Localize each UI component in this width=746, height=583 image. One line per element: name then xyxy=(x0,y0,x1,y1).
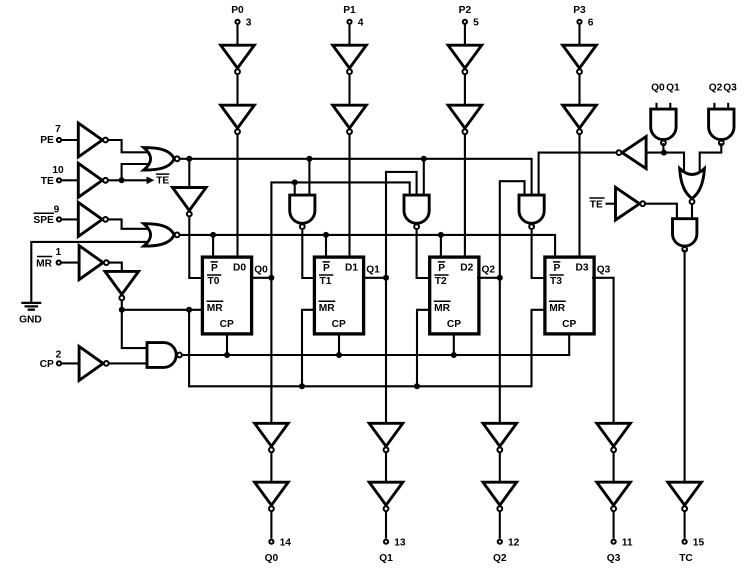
svg-text:SPE: SPE xyxy=(33,215,54,226)
junction P bus to FF2 xyxy=(438,232,444,238)
AND gate T1 (Q0*E) xyxy=(290,195,315,229)
svg-text:P: P xyxy=(323,263,330,274)
wire G4 output to node F xyxy=(662,143,664,153)
wire Q3 to output pin xyxy=(613,511,615,538)
inverter P2 second stage xyxy=(448,105,482,134)
junction MR node A xyxy=(119,307,125,313)
input pin P0 pin 3 xyxy=(231,5,251,28)
svg-text:D1: D1 xyxy=(345,263,358,274)
input pin P2 pin 5 xyxy=(459,5,479,28)
output pin Q1 pin 13 xyxy=(379,537,406,564)
svg-text:D3: D3 xyxy=(576,263,589,274)
junction CP bus to FF0 xyxy=(224,352,230,358)
wire TC to output pin xyxy=(684,511,686,538)
wire enable stub to AND T2 right input xyxy=(423,159,425,196)
wire P3 data line to FF3 D input xyxy=(578,134,580,258)
AND gate T3 (Q2*E*TCfb) xyxy=(519,195,544,229)
inverter P2 first stage xyxy=(448,45,482,74)
inverter Q1 output second stage xyxy=(369,482,403,511)
NOR gate G2 parallel-enable xyxy=(144,224,180,246)
junction enable to AND T1 xyxy=(306,156,312,162)
wire P3 between inverters xyxy=(578,74,580,105)
output pin Q3 pin 11 xyxy=(607,537,633,564)
label Q2 output xyxy=(482,265,496,276)
wire Q1 between output inverters xyxy=(385,453,387,483)
svg-text:MR: MR xyxy=(434,303,450,314)
wire PE-bar bus from G2 to FF3 P input xyxy=(180,235,555,258)
svg-text:P: P xyxy=(438,263,445,274)
svg-text:Q3: Q3 xyxy=(723,82,737,93)
svg-text:TE: TE xyxy=(590,200,603,211)
svg-text:Q2: Q2 xyxy=(709,82,723,93)
inverter Q3 output second stage xyxy=(597,482,631,511)
junction MR bus to FF1 riser xyxy=(299,383,305,389)
inverter Q2 output second stage xyxy=(483,482,517,511)
svg-text:T2: T2 xyxy=(435,276,447,287)
wire P0 data line to FF0 D input xyxy=(236,134,238,258)
wire P stub to FF0 xyxy=(212,235,214,258)
svg-text:5: 5 xyxy=(473,17,479,28)
flip-flop FF0 (D0/T0 latch) xyxy=(202,257,251,334)
label TE input of I8 xyxy=(589,198,604,211)
wire Q0 riser to AND T1/T2 left inputs xyxy=(271,182,409,277)
wire CP inverter to NAND G3 lower input xyxy=(109,362,148,364)
wire I6 output down xyxy=(121,301,123,310)
svg-text:P: P xyxy=(554,263,561,274)
wire P stub to FF1 xyxy=(325,235,327,258)
wire TE branch to NOR G1 lower input xyxy=(122,164,150,180)
label Q0 output xyxy=(254,265,268,276)
NAND gate G5 (Q2*Q3) xyxy=(709,109,734,145)
wire Q1 down to output buffers xyxy=(385,278,387,424)
svg-text:CP: CP xyxy=(447,319,461,330)
svg-text:CP: CP xyxy=(332,319,346,330)
svg-text:MR: MR xyxy=(549,303,565,314)
wire CP stub to FF1 xyxy=(338,332,340,355)
junction CP bus to FF1 xyxy=(336,352,342,358)
svg-text:11: 11 xyxy=(622,537,633,548)
NAND gate G3 clock driver xyxy=(147,343,182,368)
label TE internal net xyxy=(156,174,170,186)
wire SPE inverter to NOR G2 upper input xyxy=(109,219,151,228)
svg-text:7: 7 xyxy=(55,124,61,135)
output pin Q2 pin 12 xyxy=(493,537,520,564)
label Q0 input of NAND G4 xyxy=(651,82,665,93)
svg-text:D0: D0 xyxy=(233,263,246,274)
output pin TC pin 15 xyxy=(679,537,704,564)
svg-text:D2: D2 xyxy=(460,263,473,274)
inverter I6 MR second stage xyxy=(105,271,139,300)
inverter I5 enable-to-T0 xyxy=(173,188,207,217)
svg-text:12: 12 xyxy=(508,537,520,548)
inverter CP buffer xyxy=(79,346,109,380)
junction CP bus to FF2 xyxy=(451,352,457,358)
inverter PE buffer xyxy=(78,123,108,157)
svg-text:Q0: Q0 xyxy=(254,265,268,276)
NAND gate G7 terminal-count xyxy=(673,219,697,252)
svg-text:Q0: Q0 xyxy=(265,553,279,564)
arrow internal signal TE xyxy=(147,177,155,185)
wire PE inverter to NOR G1 upper input xyxy=(109,140,151,152)
inverter Q2 output first stage xyxy=(483,423,517,452)
svg-text:Q2: Q2 xyxy=(493,553,507,564)
svg-text:13: 13 xyxy=(394,537,406,548)
svg-text:P0: P0 xyxy=(231,5,244,16)
input pin P1 pin 4 xyxy=(343,5,363,28)
flip-flop FF1 (D1/T1 latch) xyxy=(314,257,363,334)
ground xyxy=(19,303,42,325)
inverter P1 first stage xyxy=(333,45,367,74)
wire MR riser to FF2 MR input xyxy=(417,310,431,387)
wire Q3 between output inverters xyxy=(613,453,615,483)
wire Q0 output from FF0 xyxy=(250,277,271,279)
wire CP pin to inverter xyxy=(61,362,79,364)
inverter Q1 output first stage xyxy=(369,423,403,452)
NOR gate G1 count-enable xyxy=(144,148,180,170)
svg-text:15: 15 xyxy=(693,537,705,548)
input pin PE pin 7 xyxy=(40,124,61,146)
svg-text:Q2: Q2 xyxy=(482,265,496,276)
inverter P3 first stage xyxy=(563,45,597,74)
wire MR pin to inverter xyxy=(61,262,79,264)
wire P3 pin to inverter chain xyxy=(578,24,580,45)
junction MR bus to FF2 riser xyxy=(414,383,420,389)
wire Q2 down to output buffers xyxy=(499,278,501,424)
wire MR line to FF0 MR input xyxy=(122,309,204,311)
svg-text:Q1: Q1 xyxy=(379,553,393,564)
junction Q0 to T1 left input xyxy=(292,179,298,185)
wire G5 output to NOR G6 right input xyxy=(700,143,722,175)
wire I5 output to FF0 T0 input xyxy=(189,217,204,278)
wire Q1 riser to AND T2 middle input xyxy=(386,172,417,278)
svg-text:T0: T0 xyxy=(208,276,220,287)
wire PE pin to inverter xyxy=(61,139,78,141)
junction TE branch xyxy=(119,177,125,183)
junction MR node B xyxy=(186,307,192,313)
input pin MR pin 1 xyxy=(36,247,61,269)
svg-text:MR: MR xyxy=(319,303,335,314)
svg-text:TE: TE xyxy=(156,176,169,187)
inverter SPE buffer xyxy=(78,202,108,236)
svg-text:P1: P1 xyxy=(343,5,356,16)
inverter MR buffer xyxy=(79,246,109,280)
wire node F to NOR G6 left input xyxy=(646,153,684,175)
wire P0 between inverters xyxy=(236,74,238,105)
wire I7 output to AND T3 right input xyxy=(539,153,616,196)
wire Q3 output from FF3 down to output buffers xyxy=(592,278,614,424)
wire Q0 between output inverters xyxy=(270,453,272,483)
wire ground to NOR G2 lower input xyxy=(31,242,150,302)
wire Q2 between output inverters xyxy=(499,453,501,483)
junction enable at inverter I5 xyxy=(186,156,192,162)
wire P stub to FF2 xyxy=(440,235,442,258)
inverter P1 second stage xyxy=(333,105,367,134)
svg-text:MR: MR xyxy=(36,258,52,269)
svg-text:14: 14 xyxy=(280,537,292,548)
svg-text:Q1: Q1 xyxy=(366,265,380,276)
label Q1 input of NAND G4 xyxy=(666,82,680,93)
junction P bus to FF1 xyxy=(323,232,329,238)
junction node Q0 xyxy=(268,275,274,281)
wire TE pin to inverter xyxy=(61,179,78,181)
svg-text:6: 6 xyxy=(588,17,594,28)
label Q3 output xyxy=(597,265,611,276)
junction node Q2 xyxy=(497,275,503,281)
inverter Q3 output first stage xyxy=(597,423,631,452)
wire Q0 to output pin xyxy=(270,511,272,538)
wire enable branch into inverter I5 xyxy=(188,159,190,188)
svg-text:Q3: Q3 xyxy=(597,265,611,276)
svg-text:GND: GND xyxy=(19,314,42,325)
svg-text:4: 4 xyxy=(358,17,364,28)
wire Q2 stub into G5 xyxy=(713,103,715,110)
junction P bus to FF0 xyxy=(210,232,216,238)
label Q3 input of NAND G5 xyxy=(723,82,737,93)
wire MR riser to FF1 MR input xyxy=(302,310,316,387)
svg-text:CP: CP xyxy=(562,319,576,330)
wire TC net down to output buffer xyxy=(684,250,686,483)
label Q1 output xyxy=(366,265,380,276)
wire P1 data line to FF1 D input xyxy=(348,134,350,258)
svg-text:TC: TC xyxy=(679,553,693,564)
input pin TE pin 10 xyxy=(41,165,64,187)
inverter P3 second stage xyxy=(563,105,597,134)
wire Q1 stub into G4 xyxy=(669,103,671,110)
wire Q1 to output pin xyxy=(385,511,387,538)
wire Q0 stub to T1 left input xyxy=(294,182,296,196)
wire Q2 riser to AND T3 left input xyxy=(500,181,525,278)
flip-flop FF3 (D3/T3 latch) xyxy=(545,257,594,334)
wire MR bus lower run to FF3 MR xyxy=(189,310,546,387)
wire CP stub to FF2 xyxy=(453,332,455,355)
inverter TC output stage xyxy=(668,482,702,511)
input pin CP pin 2 xyxy=(40,349,62,370)
wire T3 output to FF3 T input xyxy=(532,230,546,278)
junction node Q1 xyxy=(383,275,389,281)
inverter P0 first stage xyxy=(221,45,255,74)
wire T2 output to FF2 T input xyxy=(417,230,431,278)
inverter I7 feedback xyxy=(617,137,647,169)
svg-text:3: 3 xyxy=(246,17,252,28)
wire enable net E from G1 to AND T3 middle input xyxy=(180,159,531,196)
svg-text:9: 9 xyxy=(54,205,60,216)
wire TE inverter output run xyxy=(109,179,149,181)
wire TE label to inverter I8 xyxy=(606,203,616,205)
wire CP stub to FF0 xyxy=(226,332,228,355)
svg-text:P3: P3 xyxy=(573,5,586,16)
svg-text:CP: CP xyxy=(220,319,234,330)
output pin Q0 pin 14 xyxy=(265,537,292,564)
wire MR branch to NAND G3 upper input xyxy=(122,310,148,348)
svg-text:Q0: Q0 xyxy=(651,82,665,93)
wire enable stub to AND T1 right input xyxy=(308,159,310,196)
inverter P0 second stage xyxy=(221,105,255,134)
svg-text:CP: CP xyxy=(40,359,54,370)
svg-text:P2: P2 xyxy=(459,5,472,16)
junction node F xyxy=(661,150,667,156)
wire SPE pin to inverter xyxy=(61,218,78,220)
wire MR buffer to inverter I6 xyxy=(109,263,122,272)
inverter I8 TE buffer xyxy=(616,187,646,220)
NAND gate G4 (Q0*Q1) xyxy=(651,109,676,145)
svg-text:Q3: Q3 xyxy=(607,553,621,564)
wire P2 data line to FF2 D input xyxy=(464,134,466,258)
svg-text:P: P xyxy=(211,263,218,274)
wire CP bus to FF3 CP xyxy=(183,332,569,355)
svg-text:Q1: Q1 xyxy=(666,82,680,93)
label Q2 input of NAND G5 xyxy=(709,82,723,93)
svg-text:10: 10 xyxy=(52,165,64,176)
svg-text:1: 1 xyxy=(55,247,61,258)
svg-text:2: 2 xyxy=(56,349,62,360)
svg-text:T3: T3 xyxy=(550,276,562,287)
junction enable to AND T2 xyxy=(421,156,427,162)
inverter TE buffer xyxy=(78,163,108,197)
wire I8 output to NAND G7 left input xyxy=(646,204,677,219)
wire Q2 output from FF2 xyxy=(477,277,500,279)
wire Q0 stub into G4 xyxy=(655,103,657,110)
flip-flop FF2 (D2/T2 latch) xyxy=(430,257,479,334)
AND gate T2 (Q0*Q1*E) xyxy=(404,195,429,229)
svg-text:PE: PE xyxy=(40,135,54,146)
wire Q3 stub into G5 xyxy=(727,103,729,110)
wire Q1 output from FF1 xyxy=(362,277,386,279)
wire T1 output to FF1 T input xyxy=(302,230,316,278)
NOR gate G6 (terminal count or) xyxy=(680,169,705,205)
wire Q2 to output pin xyxy=(499,511,501,538)
svg-text:MR: MR xyxy=(207,303,223,314)
wire Q0 down to output buffers xyxy=(270,278,272,424)
inverter Q0 output first stage xyxy=(255,423,289,452)
wire G6 output to NAND G7 right input xyxy=(691,205,693,220)
wire P2 pin to inverter chain xyxy=(464,24,466,45)
input pin SPE pin 9 xyxy=(33,205,61,227)
svg-text:TE: TE xyxy=(41,176,54,187)
wire P1 pin to inverter chain xyxy=(348,24,350,45)
wire P1 between inverters xyxy=(348,74,350,105)
inverter Q0 output second stage xyxy=(255,482,289,511)
wire P0 pin to inverter chain xyxy=(236,24,238,45)
svg-text:T1: T1 xyxy=(320,276,332,287)
input pin P3 pin 6 xyxy=(573,5,593,28)
wire P2 between inverters xyxy=(464,74,466,105)
